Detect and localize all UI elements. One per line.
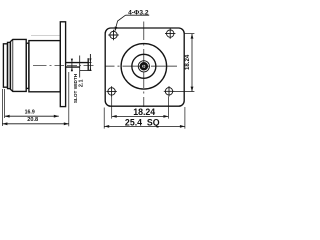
dim line 16.9 — [5, 115, 59, 117]
mounting hole TL — [108, 30, 118, 40]
right dim line 18.24 — [191, 34, 193, 92]
svg-text:16.9: 16.9 — [25, 110, 35, 116]
faint scan line — [31, 34, 60, 36]
middle circle — [132, 54, 156, 78]
label leader line — [115, 15, 126, 31]
arrow bottom 25.4 right — [180, 125, 185, 128]
arrowheads — [2, 27, 193, 128]
svg-text:25.4 SQ: 25.4 SQ — [125, 117, 160, 127]
arrow slot bottom — [71, 67, 73, 71]
bottom dim ext right corner — [184, 107, 186, 129]
svg-text:18.24: 18.24 — [133, 107, 155, 117]
connector front ring 2 — [8, 42, 11, 88]
svg-text:2.1: 2.1 — [78, 79, 84, 87]
slot width dimension line — [79, 56, 81, 78]
pin end cap — [87, 58, 89, 70]
arrow 16.9 right — [54, 115, 59, 118]
rear contact pin — [66, 63, 89, 68]
bottom dim ext BL hole — [111, 97, 113, 119]
label 4-dia3.2 underline — [126, 14, 150, 16]
side-view centerline — [33, 64, 94, 66]
nut chamfer edge line — [12, 39, 14, 91]
slot ext tick at pin top — [88, 61, 91, 63]
groove section — [26, 43, 29, 88]
arrow right dim bottom — [191, 87, 194, 92]
dim 20.8 left extension line — [1, 89, 3, 126]
main body — [29, 41, 60, 92]
dim 16.9 left extension line — [4, 89, 6, 118]
dim 20.8 right extension line — [68, 72, 70, 126]
mounting hole TR — [165, 28, 175, 38]
connector front ring 1 — [3, 44, 7, 87]
vertical centerline — [143, 22, 145, 108]
arrow 16.9 left — [5, 115, 10, 118]
right dim extension bottom — [174, 91, 195, 93]
arrow bottom 18.24 right — [163, 115, 168, 118]
arrow right dim top — [191, 34, 194, 39]
svg-text:4-Φ3.2: 4-Φ3.2 — [128, 10, 149, 17]
inner circle — [138, 61, 149, 72]
socket circle — [141, 63, 147, 69]
mounting hole BL — [106, 86, 116, 96]
bottom dim ext BR hole — [167, 97, 169, 119]
svg-text:18.24: 18.24 — [184, 54, 191, 70]
mounting hole BR — [164, 86, 174, 96]
arrow 20.8 left — [2, 122, 7, 125]
horizontal centerline — [106, 65, 178, 67]
big circle (thread OD) — [121, 44, 167, 90]
bottom dim line 25.4 — [104, 125, 185, 127]
coupling nut (chamfered corners) — [10, 39, 26, 91]
svg-text:20.8: 20.8 — [27, 117, 38, 123]
dim line 20.8 — [2, 123, 68, 125]
slot width extension line 1 — [71, 60, 73, 72]
slot leader line — [80, 70, 92, 72]
slot dim arrow up — [89, 67, 91, 71]
bottom dim ext left corner — [103, 108, 105, 129]
right dim extension top — [185, 33, 195, 35]
arrow bottom 25.4 left — [104, 125, 109, 128]
arrow 20.8 right — [64, 122, 69, 125]
slot dim arrow down — [89, 58, 91, 62]
flange square — [105, 28, 184, 106]
svg-text:SLOT WIDTH: SLOT WIDTH — [73, 73, 78, 103]
flange (edge-on) — [60, 22, 65, 107]
slot width dim line with arrows — [89, 54, 91, 71]
bottom dim line 18.24 — [112, 115, 169, 117]
arrow leader 4-dia3.2 — [115, 27, 118, 32]
arrow bottom 18.24 left — [112, 115, 117, 118]
arrow slot top — [71, 59, 73, 63]
